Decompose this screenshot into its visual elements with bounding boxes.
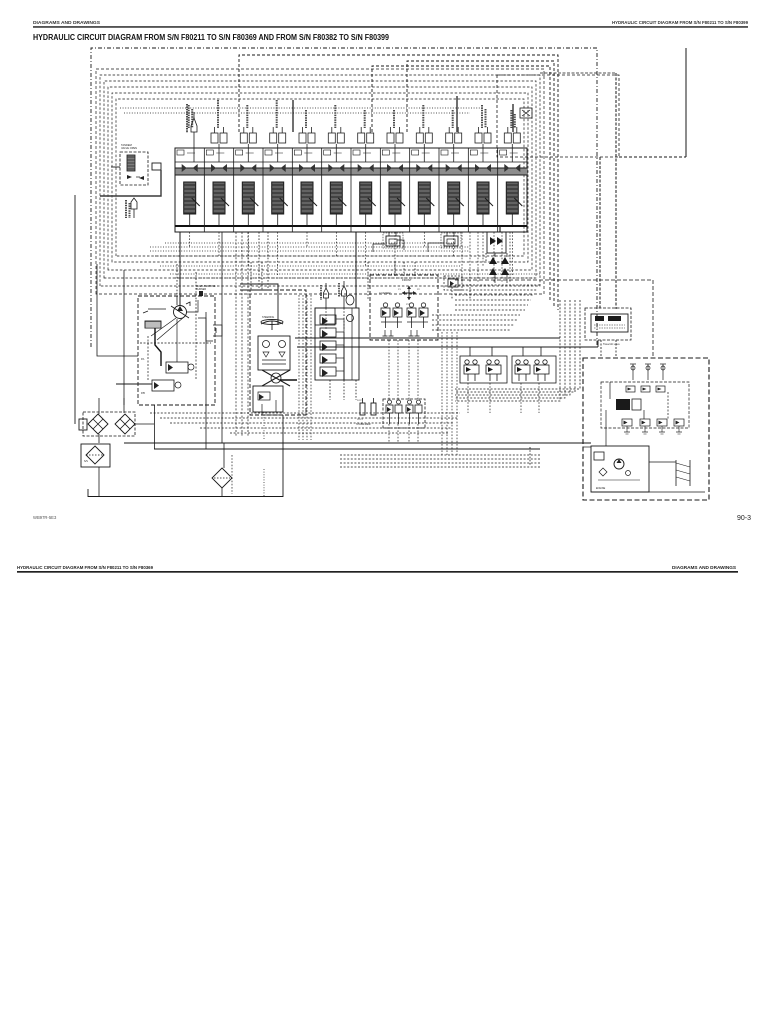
routing bus frame 4 xyxy=(104,81,536,278)
pilot valve row 3 xyxy=(320,341,336,350)
left long vertical drops xyxy=(235,232,237,437)
tank return line long xyxy=(124,442,545,444)
valve section 1 pilot row xyxy=(182,164,198,172)
valve section 10 divider xyxy=(438,148,440,232)
steering T port bold xyxy=(280,379,297,381)
steering crossover xyxy=(262,370,290,386)
tank line right segment xyxy=(545,442,591,444)
steering lower valve box xyxy=(253,386,283,412)
gauge wires xyxy=(373,244,385,252)
section 7 port tabs xyxy=(353,150,360,155)
routing frame from section 8 top xyxy=(407,61,554,306)
solenoid pair section 6 xyxy=(328,127,344,162)
valve section 8 pilot row xyxy=(387,164,403,172)
valve section 6 divider xyxy=(321,148,323,232)
routing frame from section 7 top xyxy=(372,66,550,300)
valve bank bottom rails xyxy=(175,225,527,227)
valve section 3 spool xyxy=(242,182,258,226)
section 10 label xyxy=(452,110,454,128)
section 2 port tabs xyxy=(206,150,213,155)
engine box xyxy=(591,446,649,492)
steering drain stubs xyxy=(261,412,263,415)
stabilizer valve cluster xyxy=(383,399,425,428)
accumulator plug (option) xyxy=(191,118,197,132)
steering valve block xyxy=(250,290,306,415)
svg-text:HYDRAULIC CIRCUIT DIAGRAM FROM: HYDRAULIC CIRCUIT DIAGRAM FROM S/N F8021… xyxy=(33,33,389,42)
routing bus frame 5 xyxy=(108,87,532,270)
wire pump block right down xyxy=(205,312,207,449)
outer routing bus frame 1 (dash-dot) xyxy=(91,48,597,347)
cooler diamond xyxy=(115,414,135,434)
pump internal valve B xyxy=(152,380,174,391)
valve section 1 spool xyxy=(184,182,200,226)
svg-text:HYDRAULIC CIRCUIT DIAGRAM FROM: HYDRAULIC CIRCUIT DIAGRAM FROM S/N F8021… xyxy=(17,565,154,570)
valve section 1 divider xyxy=(174,148,176,232)
svg-text:DIAGRAMS AND DRAWINGS: DIAGRAMS AND DRAWINGS xyxy=(33,20,100,25)
svg-text:WB97R-5E3: WB97R-5E3 xyxy=(33,515,57,520)
pilot valve row 5 xyxy=(320,367,336,376)
pump internal valve A xyxy=(166,362,188,373)
page header rule + texts xyxy=(33,20,749,25)
pressure plug Bx2 xyxy=(342,286,347,296)
svg-text:BURNER: BURNER xyxy=(196,288,206,291)
pump swash diagonals xyxy=(151,317,184,340)
section 3 label xyxy=(246,105,248,128)
block internal wires xyxy=(583,446,591,448)
valve section 11 pilot row xyxy=(475,164,491,172)
svg-text:DIAGRAMS AND DRAWINGS: DIAGRAMS AND DRAWINGS xyxy=(672,565,736,570)
solenoid pair section 12 xyxy=(504,127,520,162)
steering orbitrol box xyxy=(258,336,290,370)
valve section 8 spool xyxy=(389,182,405,226)
section 12 port tabs xyxy=(500,150,507,155)
travel AC valve frame xyxy=(585,308,631,340)
solenoid pair section 9 xyxy=(416,127,432,162)
front loader block frame xyxy=(370,275,438,340)
valve section 10 spool xyxy=(448,182,464,226)
cooler side box xyxy=(79,419,87,430)
tandem valve supply wire xyxy=(111,166,120,168)
solenoid pair section 3 xyxy=(240,127,256,162)
solenoid pair section 10 xyxy=(446,127,462,162)
next page header xyxy=(17,565,736,570)
svg-text:ENGINE: ENGINE xyxy=(596,487,606,490)
cooler diamond xyxy=(88,414,108,434)
section 4 port tabs xyxy=(265,150,272,155)
routing bus frame 2 xyxy=(96,69,544,294)
valve section 5 divider xyxy=(291,148,293,232)
tandem valve block xyxy=(120,152,148,185)
pilot valve row 4 xyxy=(320,354,336,363)
inner bus lines xyxy=(120,107,480,109)
section 1 port tabs xyxy=(177,150,184,155)
engine pump circle xyxy=(614,459,624,469)
svg-text:Travel AC valve: Travel AC valve xyxy=(603,343,620,346)
routing bus frame 3 xyxy=(100,75,540,286)
travel AC feeds xyxy=(599,157,601,309)
pump circle xyxy=(174,306,187,319)
valve section 3 divider xyxy=(233,148,235,232)
valve section 7 divider xyxy=(350,148,352,232)
svg-text:STEERING: STEERING xyxy=(262,316,274,319)
oil cooler box xyxy=(83,412,135,436)
pilot valve row 1 xyxy=(320,315,336,324)
section 3 port tabs xyxy=(236,150,243,155)
valve section 9 spool xyxy=(418,182,434,226)
steering tank line xyxy=(88,415,283,497)
section 8 port tabs xyxy=(382,150,389,155)
breather plugs top xyxy=(632,364,634,380)
cooler outlet line xyxy=(134,423,154,425)
valve section 3 pilot row xyxy=(240,164,256,172)
svg-text:P4 P1: P4 P1 xyxy=(357,400,364,402)
valve section 12 spool xyxy=(506,182,522,226)
valve section 8 divider xyxy=(379,148,381,232)
svg-text:90-3: 90-3 xyxy=(737,515,751,522)
section 4 label xyxy=(276,100,278,128)
check valve pairs below priority valve xyxy=(489,257,509,275)
section 9 label xyxy=(422,105,424,128)
return filter diamond xyxy=(212,468,232,488)
svg-text:P/L: P/L xyxy=(141,358,145,361)
engine-pump block frame xyxy=(583,358,709,500)
valve section 11 divider xyxy=(467,148,469,232)
steering wheel xyxy=(261,321,283,324)
steering drain dotted xyxy=(263,412,265,440)
svg-text:P/B: P/B xyxy=(141,392,145,395)
solenoid pair section 2 xyxy=(211,127,227,162)
steering-stack vertical bus xyxy=(298,295,300,440)
section 7 label xyxy=(364,110,366,128)
svg-text:P6 P2: P6 P2 xyxy=(357,419,364,421)
center pilot valve stack xyxy=(315,308,359,380)
main control valve bank body xyxy=(175,148,527,232)
stabilizer drops xyxy=(388,424,390,443)
valve section 2 spool xyxy=(213,182,229,226)
solid feed lines to right xyxy=(295,337,560,339)
section 5 port tabs xyxy=(294,150,301,155)
section 9 port tabs xyxy=(412,150,419,155)
upper small valves row xyxy=(626,386,635,392)
lower dashed bus xyxy=(150,412,460,414)
top-right dashed rect xyxy=(497,75,619,157)
svg-text:HYDRAULIC CIRCUIT DIAGRAM FROM: HYDRAULIC CIRCUIT DIAGRAM FROM S/N F8021… xyxy=(612,20,749,25)
pilot valve row 2 xyxy=(320,328,336,337)
tandem valve side box xyxy=(152,163,161,170)
staircase down bundle xyxy=(441,332,443,455)
section 8 label xyxy=(393,110,395,128)
solenoid pair section 4 xyxy=(270,127,286,162)
valve section 9 divider xyxy=(409,148,411,232)
pump bold spool path xyxy=(155,328,161,366)
stabilizer cylinders xyxy=(360,403,365,415)
section 11 port tabs xyxy=(470,150,477,155)
svg-text:LOADER: LOADER xyxy=(379,291,391,295)
pump right connector xyxy=(213,325,222,336)
routing bus frame 6 xyxy=(112,93,528,262)
valve section 7 spool xyxy=(360,182,376,226)
solenoid cluster dark xyxy=(616,399,630,410)
solenoid pair section 11 xyxy=(475,127,491,162)
rear aux valve group B xyxy=(512,356,556,383)
right staircase bus xyxy=(455,284,540,286)
wire pump to cooler xyxy=(74,195,76,424)
valve section 5 spool xyxy=(301,182,317,226)
valve section 4 spool xyxy=(272,182,288,226)
section 6 label xyxy=(334,105,336,128)
routing bus frame 7 xyxy=(116,99,524,256)
steering entry wires xyxy=(240,284,278,325)
valve section 5 pilot row xyxy=(299,164,315,172)
valve section 2 pilot row xyxy=(211,164,227,172)
pump outlet stubs xyxy=(98,398,100,405)
valve section 12 pilot row xyxy=(504,164,520,172)
right nest to lower-right block xyxy=(455,300,560,401)
valve section 4 divider xyxy=(262,148,264,232)
cooler fins right xyxy=(675,460,677,486)
solenoid pair section 5 xyxy=(299,127,315,162)
svg-text:P2: P2 xyxy=(417,289,420,291)
bold pilot feed lines above bank xyxy=(292,100,294,132)
rear aux feeds xyxy=(469,347,471,356)
loader T plugs xyxy=(384,330,386,336)
drain lines below bank xyxy=(189,232,191,248)
solenoid pair section 8 xyxy=(387,127,403,162)
top-right tall line xyxy=(685,48,687,157)
priority valve box xyxy=(487,232,506,253)
valve section 7 pilot row xyxy=(358,164,374,172)
pump right routing xyxy=(186,300,213,341)
engine small box xyxy=(594,452,604,460)
suction strainer box xyxy=(81,444,110,467)
gauge box B xyxy=(441,233,461,248)
pump motor rect xyxy=(145,321,161,328)
section 5 label xyxy=(305,110,307,128)
pump block frame xyxy=(138,296,215,405)
pump wires xyxy=(176,296,178,305)
wire left bus down xyxy=(97,264,138,356)
tandem valve check arrows xyxy=(127,175,144,180)
valve section 11 spool xyxy=(477,182,493,226)
valve section 4 pilot row xyxy=(270,164,286,172)
load plug below tandem valve xyxy=(131,198,137,209)
misc vertical drops mid xyxy=(250,262,252,290)
valve section 6 spool xyxy=(330,182,346,226)
stabilizer feed dashes xyxy=(340,454,540,456)
inner dashed frame xyxy=(601,382,689,428)
rear aux valve group A xyxy=(460,356,507,383)
pressure plug Bx1 xyxy=(324,288,329,298)
section 11 label xyxy=(481,105,483,128)
loader joystick cross xyxy=(402,286,416,300)
svg-text:S/S: S/S xyxy=(84,460,88,463)
travel AC valve body xyxy=(591,314,628,332)
pump label line xyxy=(143,309,166,313)
lower valves row with tank symbols xyxy=(622,419,632,426)
section 12 label xyxy=(510,110,512,128)
plug box above bank right xyxy=(520,108,532,118)
svg-text:STABILIZER: STABILIZER xyxy=(356,422,371,426)
long dash line to travel AC valve xyxy=(455,279,653,281)
gauge box A xyxy=(383,233,403,248)
loader pilot valve pair xyxy=(381,303,402,328)
section 6 port tabs xyxy=(324,150,331,155)
routing frame from section 3 top xyxy=(239,55,558,310)
swing pedal box xyxy=(444,276,462,290)
solenoid pair section 7 xyxy=(358,127,374,162)
feed line section 7 down xyxy=(355,232,357,308)
section 10 port tabs xyxy=(441,150,448,155)
valve section 12 divider xyxy=(497,148,499,232)
valve section 10 pilot row xyxy=(446,164,462,172)
svg-text:FRONT: FRONT xyxy=(402,278,412,282)
svg-text:VALVE OPEN: VALVE OPEN xyxy=(121,146,137,150)
mid bus extra horizontals xyxy=(150,246,470,248)
valve section 6 pilot row xyxy=(328,164,344,172)
section 2 label xyxy=(217,100,219,128)
svg-text:P1: P1 xyxy=(398,289,401,291)
right bank drops xyxy=(461,232,463,283)
valve section 2 divider xyxy=(203,148,205,232)
loader pilot valve pair xyxy=(407,303,428,328)
valve section 9 pilot row xyxy=(416,164,432,172)
section 1 label xyxy=(188,105,190,128)
loader to stabilizer dashes xyxy=(388,340,390,399)
